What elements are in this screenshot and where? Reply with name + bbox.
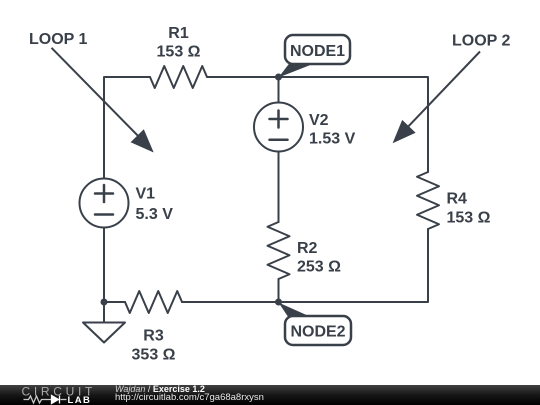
wire V2 to R2: [278, 152, 280, 223]
svg-text:R3: R3: [143, 328, 164, 345]
R3 value label: [132, 328, 176, 364]
CircuitLab logo: [20, 384, 105, 405]
svg-text:V1: V1: [136, 186, 156, 203]
resistor R3: [125, 291, 182, 313]
svg-text:LOOP 1: LOOP 1: [29, 31, 87, 48]
wire V1 to bottom node: [103, 228, 105, 303]
svg-text:5.3 V: 5.3 V: [136, 206, 174, 223]
wire to ground: [103, 302, 105, 323]
wire bottom node to R3: [104, 301, 125, 303]
svg-text:LAB: LAB: [68, 395, 92, 405]
NODE2 flag: [279, 303, 352, 346]
NODE1 flag: [279, 35, 351, 78]
svg-text:R1: R1: [168, 25, 189, 42]
svg-text:153 Ω: 153 Ω: [157, 44, 201, 61]
LOOP 1 arrow: [52, 48, 154, 153]
resistor R1: [150, 66, 207, 88]
wire top from R1 to top-right corner: [207, 77, 428, 172]
footer bar: [0, 385, 540, 405]
wire R4 to bottom-right corner: [182, 229, 428, 302]
LOOP 2 arrow: [393, 52, 480, 144]
R1 value label: [157, 25, 201, 61]
R2 value label: [297, 240, 341, 276]
ground junction dot: [101, 299, 108, 306]
svg-text:153 Ω: 153 Ω: [447, 210, 491, 227]
V1 value label: [136, 186, 174, 224]
voltage source V2: [254, 103, 303, 152]
svg-text:NODE1: NODE1: [290, 43, 345, 60]
voltage source V1: [80, 179, 129, 228]
svg-text:V2: V2: [309, 112, 329, 129]
node B junction dot: [275, 299, 282, 306]
svg-text:1.53 V: 1.53 V: [309, 131, 356, 148]
R4 value label: [447, 191, 491, 227]
svg-text:NODE2: NODE2: [290, 324, 345, 341]
wire node to V2: [278, 77, 280, 103]
svg-text:R4: R4: [447, 191, 468, 208]
wire R2 to bottom wire: [278, 279, 280, 302]
V2 value label: [309, 112, 356, 148]
svg-text:253 Ω: 253 Ω: [297, 259, 341, 276]
resistor R2: [268, 222, 290, 279]
node A junction dot: [275, 74, 282, 81]
ground: [83, 323, 125, 343]
wire top-left from corner to R1: [104, 77, 150, 178]
resistor R4: [417, 172, 439, 229]
svg-text:353 Ω: 353 Ω: [132, 347, 176, 364]
svg-text:R2: R2: [297, 240, 318, 257]
svg-text:LOOP 2: LOOP 2: [452, 33, 510, 50]
